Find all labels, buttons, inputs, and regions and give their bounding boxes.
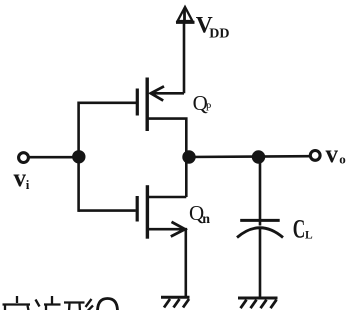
svg-text:n: n xyxy=(202,212,210,227)
svg-text:v: v xyxy=(14,165,27,192)
svg-text:v: v xyxy=(326,141,339,168)
svg-text:DD: DD xyxy=(209,26,229,41)
svg-text:o: o xyxy=(339,151,346,166)
svg-text:P: P xyxy=(206,103,212,114)
svg-text:C: C xyxy=(293,214,306,244)
svg-text:L: L xyxy=(305,230,313,242)
svg-text:i: i xyxy=(26,177,30,192)
